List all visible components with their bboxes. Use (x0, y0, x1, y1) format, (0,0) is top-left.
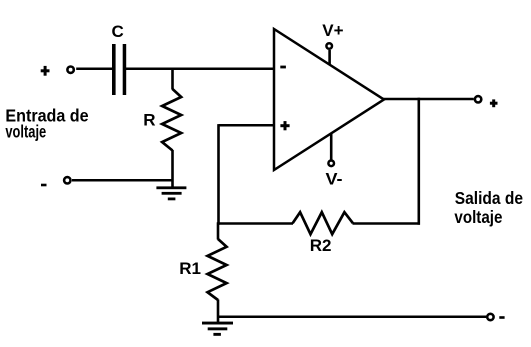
wire R2 to output vertical (353, 222, 421, 225)
label - (output minus sign) (499, 316, 504, 319)
input terminal + (67, 67, 73, 73)
label - (input minus sign) (41, 184, 47, 187)
wire output (383, 98, 474, 101)
wire input+ to capacitor (76, 67, 112, 70)
label + (non-inverting input sign) (280, 121, 289, 130)
resistor R2 (293, 212, 353, 234)
op-amp U1 (274, 29, 384, 170)
wire bottom to output - terminal (218, 315, 486, 318)
resistor R (162, 89, 181, 151)
svg-text:voltaje: voltaje (5, 121, 46, 141)
input terminal - (64, 177, 70, 183)
label + (output plus sign) (490, 99, 498, 107)
ground (input side) (156, 186, 186, 200)
capacitor C (112, 44, 126, 95)
wire feedback horizontal (217, 222, 293, 225)
svg-text:V+: V+ (322, 21, 343, 40)
svg-text:Salida de: Salida de (455, 188, 523, 208)
V+ pin stub (328, 50, 331, 65)
wire feedback vertical (217, 124, 220, 225)
wire R1 top (217, 222, 220, 239)
ground (bottom) (202, 322, 233, 336)
V- terminal (328, 161, 334, 167)
svg-text:R2: R2 (310, 236, 332, 255)
V- pin stub (330, 133, 333, 160)
wire R to ground (171, 150, 174, 188)
wire output vertical (417, 98, 420, 225)
wire input- to ground (72, 179, 173, 182)
wire R1 to ground (217, 300, 220, 323)
output terminal - (487, 314, 493, 320)
V+ terminal (326, 43, 332, 49)
wire capacitor to op-amp inverting input (126, 67, 274, 70)
svg-text:V-: V- (326, 169, 343, 188)
label + (input plus sign) (41, 66, 50, 76)
svg-text:R1: R1 (179, 259, 201, 278)
label - (inverting input sign) (280, 66, 286, 69)
output terminal + (475, 96, 481, 102)
text Salida de voltaje (454, 188, 523, 227)
svg-text:voltaje: voltaje (454, 207, 502, 227)
svg-text:R: R (143, 111, 155, 130)
svg-text:C: C (112, 22, 124, 41)
text Entrada de voltaje (5, 106, 88, 142)
resistor R1 (208, 239, 227, 300)
wire non-inverting input (219, 124, 274, 127)
wire junction to resistor R (171, 69, 174, 90)
